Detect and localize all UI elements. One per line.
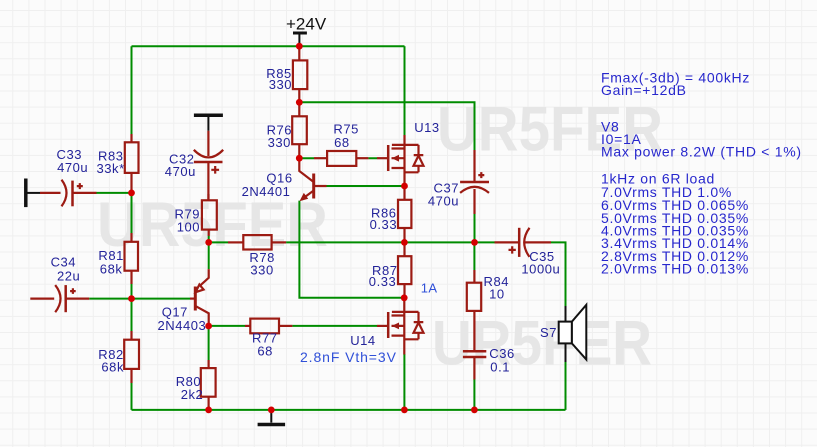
resistor R81 xyxy=(130,233,132,242)
junction U13 source / R86 / Q16 base xyxy=(401,183,408,190)
wire Q16 base to U13 source xyxy=(327,185,405,187)
svg-text:100: 100 xyxy=(177,220,200,235)
wire speaker bottom to rail xyxy=(565,362,567,410)
junction R87 / U14 drain / Q16 emitter xyxy=(401,294,408,301)
mosfet U14 xyxy=(377,298,424,355)
svg-text:0.33: 0.33 xyxy=(370,217,398,232)
resistor R75 xyxy=(314,157,327,159)
svg-text:68: 68 xyxy=(257,343,273,358)
wire Q17 collector node to R80 xyxy=(208,326,210,360)
resistor R82 xyxy=(130,331,132,340)
junction output / C37 / C35 / R84 xyxy=(471,239,478,246)
wire left rail xyxy=(131,46,133,410)
svg-text:68: 68 xyxy=(334,135,350,150)
transistor Q16 xyxy=(299,158,326,201)
svg-text:33k*: 33k* xyxy=(97,161,125,176)
wire Q17 base xyxy=(132,298,191,300)
wire top rail xyxy=(132,45,405,47)
svg-text:470u: 470u xyxy=(57,160,88,175)
ground G2 above C32 xyxy=(194,113,223,117)
svg-text:2.8nF Vth=3V: 2.8nF Vth=3V xyxy=(300,349,397,365)
svg-text:+24V: +24V xyxy=(286,15,327,34)
svg-text:Gain=+12dB: Gain=+12dB xyxy=(601,82,687,98)
resistor R85 xyxy=(298,46,300,60)
svg-text:10: 10 xyxy=(489,286,505,301)
svg-text:Max power 8.2W (THD < 1%): Max power 8.2W (THD < 1%) xyxy=(601,144,802,160)
capacitor C37 xyxy=(473,150,475,182)
junction R79 / R78 / Q17 emitter xyxy=(205,239,212,246)
svg-text:330: 330 xyxy=(269,77,292,92)
junction R80 / ground rail xyxy=(205,407,212,414)
wire output row xyxy=(209,241,495,243)
wire R80 bottom xyxy=(208,406,210,410)
wire gate row R75 to U13 xyxy=(300,157,377,159)
svg-text:1000u: 1000u xyxy=(521,262,560,277)
resistor R84 xyxy=(473,270,475,283)
transistor Q17 xyxy=(190,269,209,326)
wire R79 node Q17 emitter xyxy=(208,236,210,269)
capacitor C33 xyxy=(40,192,61,194)
svg-text:2k2: 2k2 xyxy=(181,387,204,402)
wire C34 lead to node xyxy=(89,298,131,300)
junction R76 / R75 / Q16 collector xyxy=(296,155,303,162)
junction R85 / R76 / bootstrap xyxy=(296,99,303,106)
svg-text:UR5FER: UR5FER xyxy=(432,309,652,379)
svg-text:C34: C34 xyxy=(51,254,77,269)
capacitor C32 xyxy=(207,131,209,156)
ground G3 bottom rail xyxy=(258,423,286,427)
resistor R83 xyxy=(130,134,132,142)
svg-text:68k: 68k xyxy=(101,360,124,375)
mosfet U13 xyxy=(377,135,424,186)
junction Q17 collector / R77 / R80 xyxy=(205,323,212,330)
resistor R80 xyxy=(208,360,210,368)
svg-text:1A: 1A xyxy=(421,281,438,296)
wire C37 to output node xyxy=(474,214,476,242)
junction ground symbol / rail xyxy=(268,407,275,414)
power +24V flag xyxy=(293,32,307,35)
svg-text:470u: 470u xyxy=(428,193,459,208)
svg-text:68k: 68k xyxy=(100,261,123,276)
svg-text:330: 330 xyxy=(268,135,291,150)
resistor R78 xyxy=(228,241,243,243)
svg-text:U13: U13 xyxy=(414,120,440,135)
wire bottom rail xyxy=(132,409,566,411)
resistor R79 xyxy=(207,194,209,200)
capacitor C34 xyxy=(30,298,54,300)
resistor R86 xyxy=(403,186,405,200)
wire bootstrap row xyxy=(299,102,474,150)
wire U13 drain from rail xyxy=(404,46,406,135)
svg-text:330: 330 xyxy=(250,262,273,277)
junction R83 / R81 / C33 xyxy=(128,190,135,197)
wire U14 source to rail xyxy=(403,354,405,410)
resistor R87 xyxy=(403,242,405,256)
svg-text:22u: 22u xyxy=(57,268,80,283)
junction R81 / R82 / C34 / Q17 base xyxy=(128,295,135,302)
capacitor C35 xyxy=(495,241,520,243)
resistor R77 xyxy=(245,325,250,327)
speaker S7 xyxy=(565,306,567,362)
wire Q16 emitter down xyxy=(299,201,404,298)
wire gate row U14 xyxy=(209,325,377,327)
junction U14 source / rail xyxy=(401,407,408,414)
svg-text:470u: 470u xyxy=(165,164,196,179)
resistor R76 xyxy=(298,102,300,116)
wire C33 lead to node xyxy=(97,192,132,194)
capacitor C36 xyxy=(463,351,486,357)
svg-text:U14: U14 xyxy=(350,333,376,348)
ground G1 left of C33 xyxy=(24,179,28,208)
svg-text:0.1: 0.1 xyxy=(490,359,510,374)
svg-text:2N4403: 2N4403 xyxy=(158,318,207,333)
junction +24V rail / R85 xyxy=(296,43,303,50)
wire R84 C36 column xyxy=(473,242,475,410)
svg-text:2N4401: 2N4401 xyxy=(242,184,291,199)
junction R86 / R87 output node xyxy=(401,239,408,246)
junction C36 / rail xyxy=(471,407,478,414)
wire C35 to speaker xyxy=(551,242,566,306)
svg-text:0.33: 0.33 xyxy=(369,274,397,289)
svg-text:S7: S7 xyxy=(540,325,557,340)
svg-text:2.0Vrms THD 0.013%: 2.0Vrms THD 0.013% xyxy=(601,261,749,277)
